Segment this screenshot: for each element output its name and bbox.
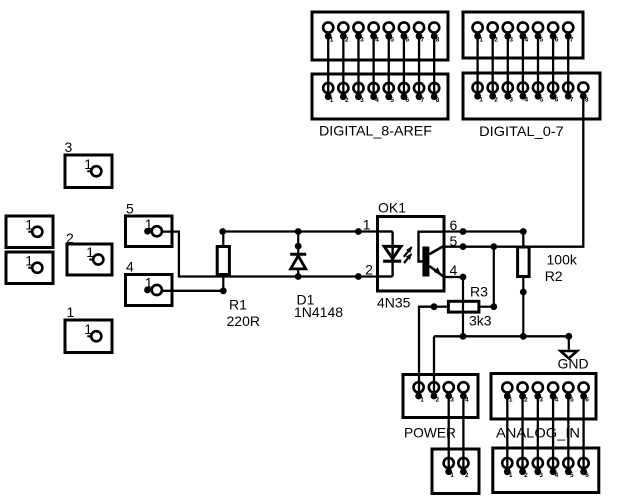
svg-text:3: 3 bbox=[509, 37, 513, 44]
svg-text:3: 3 bbox=[509, 97, 513, 104]
svg-text:1: 1 bbox=[450, 472, 454, 479]
svg-text:3: 3 bbox=[450, 397, 454, 404]
svg-text:1: 1 bbox=[67, 304, 75, 320]
svg-text:6: 6 bbox=[406, 37, 410, 44]
svg-text:1: 1 bbox=[479, 37, 483, 44]
svg-text:2: 2 bbox=[436, 397, 440, 404]
svg-text:7: 7 bbox=[570, 37, 574, 44]
svg-text:4: 4 bbox=[375, 97, 379, 104]
svg-text:7: 7 bbox=[421, 37, 425, 44]
svg-text:2: 2 bbox=[524, 397, 528, 404]
svg-text:2: 2 bbox=[66, 230, 74, 246]
svg-text:4: 4 bbox=[375, 37, 379, 44]
svg-text:220R: 220R bbox=[227, 313, 260, 329]
svg-text:1: 1 bbox=[330, 97, 334, 104]
svg-text:6: 6 bbox=[555, 37, 559, 44]
svg-text:5: 5 bbox=[540, 97, 544, 104]
svg-text:3: 3 bbox=[539, 397, 543, 404]
svg-text:1N4148: 1N4148 bbox=[294, 304, 343, 320]
svg-text:8: 8 bbox=[585, 97, 589, 104]
svg-text:100k: 100k bbox=[547, 252, 578, 268]
svg-text:4: 4 bbox=[126, 259, 134, 275]
svg-text:4: 4 bbox=[555, 397, 559, 404]
svg-text:1: 1 bbox=[509, 472, 513, 479]
svg-text:5: 5 bbox=[540, 37, 544, 44]
svg-text:2: 2 bbox=[524, 472, 528, 479]
svg-text:4: 4 bbox=[465, 397, 469, 404]
svg-text:OK1: OK1 bbox=[378, 200, 406, 216]
svg-text:5: 5 bbox=[570, 397, 574, 404]
svg-text:6: 6 bbox=[555, 97, 559, 104]
svg-text:R1: R1 bbox=[229, 297, 247, 313]
svg-text:2: 2 bbox=[345, 97, 349, 104]
svg-text:5: 5 bbox=[390, 37, 394, 44]
svg-text:3: 3 bbox=[539, 472, 543, 479]
svg-text:4: 4 bbox=[525, 97, 529, 104]
svg-text:5: 5 bbox=[390, 97, 394, 104]
svg-text:DIGITAL_8-AREF: DIGITAL_8-AREF bbox=[319, 123, 432, 139]
svg-text:GND: GND bbox=[558, 356, 589, 372]
svg-text:6: 6 bbox=[585, 397, 589, 404]
svg-text:1: 1 bbox=[479, 97, 483, 104]
svg-text:1: 1 bbox=[330, 37, 334, 44]
svg-text:1: 1 bbox=[25, 216, 33, 232]
svg-text:4: 4 bbox=[525, 37, 529, 44]
svg-text:8: 8 bbox=[436, 97, 440, 104]
svg-text:3: 3 bbox=[65, 139, 73, 155]
svg-text:6: 6 bbox=[406, 97, 410, 104]
svg-text:DIGITAL_0-7: DIGITAL_0-7 bbox=[479, 123, 564, 139]
svg-text:2: 2 bbox=[465, 472, 469, 479]
svg-text:8: 8 bbox=[436, 37, 440, 44]
svg-text:1: 1 bbox=[86, 244, 94, 260]
svg-text:1: 1 bbox=[84, 156, 92, 172]
svg-text:2: 2 bbox=[494, 97, 498, 104]
svg-text:R3: R3 bbox=[470, 284, 488, 300]
svg-text:1: 1 bbox=[363, 217, 371, 233]
svg-text:4: 4 bbox=[450, 262, 458, 278]
svg-text:2: 2 bbox=[365, 262, 373, 278]
svg-text:3: 3 bbox=[360, 97, 364, 104]
svg-text:4: 4 bbox=[555, 472, 559, 479]
svg-text:1: 1 bbox=[25, 252, 33, 268]
svg-text:4N35: 4N35 bbox=[377, 295, 411, 311]
svg-text:5: 5 bbox=[570, 472, 574, 479]
svg-text:6: 6 bbox=[585, 472, 589, 479]
svg-text:7: 7 bbox=[421, 97, 425, 104]
svg-text:1: 1 bbox=[509, 397, 513, 404]
svg-text:5: 5 bbox=[126, 201, 134, 217]
svg-text:1: 1 bbox=[84, 321, 92, 337]
svg-text:R2: R2 bbox=[545, 268, 563, 284]
svg-text:3: 3 bbox=[360, 37, 364, 44]
svg-text:3k3: 3k3 bbox=[469, 313, 492, 329]
svg-text:7: 7 bbox=[570, 97, 574, 104]
svg-text:1: 1 bbox=[420, 397, 424, 404]
svg-text:2: 2 bbox=[345, 37, 349, 44]
svg-text:2: 2 bbox=[494, 37, 498, 44]
